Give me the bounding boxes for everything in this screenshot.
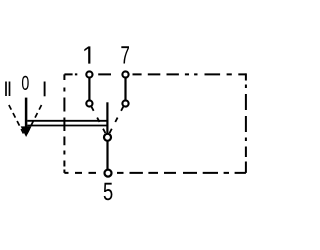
enclosure right edge (dash-dot): [245, 73, 247, 172]
terminal 1 wire stub: [88, 76, 90, 102]
terminal 5 label: [104, 183, 113, 200]
terminal 7 label: [121, 46, 129, 63]
position fan dashed line right: [27, 105, 42, 134]
terminal 1 contact dashed link: [91, 106, 105, 133]
pivot circle: [104, 134, 111, 141]
common pole wire (upper): [106, 102, 108, 134]
terminal 1 pin circle: [86, 71, 92, 77]
terminal 7 wire stub: [124, 76, 126, 102]
actuator arrow (position 0): [25, 98, 28, 128]
common pole wire (lower): [106, 141, 108, 170]
terminal 1 contact circle: [86, 100, 92, 106]
terminal 7 contact dashed link: [109, 106, 123, 133]
enclosure top edge (dash-dot): [64, 73, 246, 75]
actuator rod (double line): [27, 120, 108, 122]
terminal 1 label: [84, 46, 90, 63]
position 0 label: [22, 76, 29, 90]
terminal 5 pin circle: [105, 170, 112, 177]
position I marker: [44, 82, 46, 97]
enclosure bottom edge (dash-dot): [64, 172, 246, 174]
terminal 7 pin circle: [122, 71, 128, 77]
position II marker: [5, 82, 7, 97]
enclosure left edge (dash-dot): [63, 74, 65, 172]
terminal 7 contact circle: [122, 100, 128, 106]
position fan dashed line left: [9, 105, 24, 134]
